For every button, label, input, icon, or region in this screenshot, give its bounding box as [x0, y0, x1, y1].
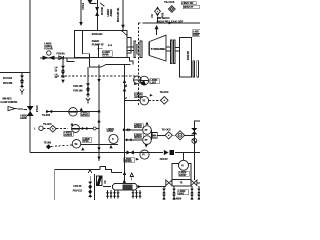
svg-text:FDS-105: FDS-105	[3, 82, 13, 85]
wire: steps to manifold	[100, 166, 112, 172]
signal: flag arrow to FCV-3	[8, 107, 15, 111]
thermowell: small diamond	[165, 132, 172, 139]
svg-text:FCV-3: FCV-3	[35, 106, 38, 113]
svg-text:BOILER: BOILER	[92, 32, 103, 36]
valve: FCV on riser x=97	[95, 7, 99, 16]
valve: FDV-57	[164, 150, 169, 155]
svg-text:GR BOX: GR BOX	[186, 51, 189, 61]
wire: drain x=58 with valves	[62, 58, 64, 78]
boundary: dashed vertical x=139	[138, 23, 140, 105]
wire: suction step into pump	[67, 58, 74, 62]
instrument: PI on recirc line	[140, 150, 149, 159]
svg-text:FCV-2: FCV-2	[82, 2, 85, 9]
wire: pump discharge stepped line	[89, 54, 130, 67]
svg-text:FDV-166: FDV-166	[73, 90, 83, 93]
valve: FCV-3 vertical bowtie	[27, 106, 34, 111]
svg-text:SPS03: SPS03	[124, 160, 132, 163]
svg-text:FCV-5B: FCV-5B	[44, 48, 53, 51]
wire: riser x=97 into pump	[96, 0, 98, 31]
wire: drain column x=92.5	[89, 176, 91, 198]
valve: FCV-5B actuator circle	[47, 51, 51, 55]
label: L4B20 LS07	[150, 79, 159, 84]
wire: drop x=99	[98, 65, 100, 162]
wire: leak-off into TE header	[193, 153, 195, 181]
svg-text:DPS7B: DPS7B	[64, 134, 72, 137]
valve: pump internal bleed	[97, 44, 99, 58]
boundary: dashed horizontal y=76	[57, 75, 139, 77]
svg-text:FDV-165: FDV-165	[73, 85, 83, 88]
wire: left recirc riser x=29	[29, 0, 31, 153]
wire: drain x=90 with FDV-165/166	[87, 67, 89, 98]
wire: leak-off header y=23	[139, 22, 145, 24]
thermowell: diamond with circle	[175, 131, 184, 140]
svg-text:MN: MN	[153, 135, 157, 138]
instrument: seal circles near turbine	[134, 76, 142, 84]
label: L4B20 TPS08 boxed	[134, 93, 142, 98]
svg-text:L4B2O DR: L4B2O DR	[182, 2, 194, 5]
valve: top inlet triangle	[88, 0, 93, 4]
svg-text:AP88: AP88	[103, 54, 110, 57]
coupling: pump/turbine	[134, 41, 136, 57]
svg-text:SPS07: SPS07	[135, 126, 143, 129]
svg-text:TE-305: TE-305	[44, 142, 52, 145]
svg-text:FLOW CONTRL: FLOW CONTRL	[1, 101, 19, 104]
instrument row 1: PI line y=111.5	[46, 111, 99, 113]
wire: drain stem x=94.3	[93, 174, 95, 200]
equipment: black box left of manifold	[103, 186, 111, 188]
svg-text:EPS07: EPS07	[179, 174, 187, 177]
branch: PT line 1 y=129.8	[125, 129, 143, 131]
svg-text:FDV-112: FDV-112	[73, 189, 83, 192]
header: TE manifold	[150, 186, 166, 188]
svg-text:PI: PI	[181, 164, 184, 167]
coupling: turbine/gear	[170, 40, 172, 64]
wire: main drop x=125.5	[124, 65, 126, 185]
svg-text:TE: TE	[142, 100, 145, 103]
valve: FCV-5B bowtie	[43, 56, 49, 60]
wire: FCV-5B line y=58.7	[40, 57, 89, 59]
svg-text:TS-OC3: TS-OC3	[43, 123, 52, 126]
node: test point on DP line	[93, 127, 96, 130]
wire: jog x=88	[91, 0, 97, 4]
strainer: Y at x=90	[86, 98, 90, 101]
branch: TE line y=100.6	[125, 100, 141, 102]
drain arrow at x=63	[61, 80, 64, 84]
svg-text:FDV-5A: FDV-5A	[57, 52, 66, 55]
vent: arrow above turbine	[155, 25, 159, 29]
coupling: gear right	[193, 61, 195, 77]
svg-text:FCV-104: FCV-104	[3, 77, 13, 80]
svg-text:L4B2: L4B2	[193, 30, 199, 33]
svg-text:TE: TE	[180, 181, 183, 184]
break: tick marks	[124, 85, 127, 86]
wire: manifold outlet	[137, 186, 150, 188]
svg-text:MN REC: MN REC	[3, 98, 12, 101]
wire: small diagonal	[100, 3, 105, 6]
wire: PI loop to TE header	[172, 164, 179, 180]
shaft: pump to coupling	[127, 46, 134, 48]
svg-text:FDV-70: FDV-70	[74, 185, 83, 188]
valves: manifold drains right group	[131, 190, 141, 198]
arrow: into manifold	[123, 179, 126, 183]
wire: test line y=135.3	[157, 134, 165, 136]
pump: boiler feed pump casing	[74, 31, 127, 58]
valves: TE header drains	[162, 186, 201, 200]
instrument: PT circle 2	[143, 136, 152, 145]
manifold: gauge board capsule	[112, 183, 137, 190]
svg-text:SPS07: SPS07	[135, 136, 143, 139]
wire: BFP lube oil riser x=123	[122, 0, 124, 31]
wire: PT pair tie	[150, 130, 152, 140]
svg-text:TPS1: TPS1	[83, 140, 89, 143]
svg-text:FDV-57: FDV-57	[160, 158, 169, 161]
valve: FDV-5A check	[59, 56, 64, 60]
label: L4B20 BP07	[178, 190, 189, 195]
svg-text:C7DR: C7DR	[107, 130, 114, 133]
wire: dashed to thermowell	[149, 100, 161, 102]
svg-text:BP07: BP07	[178, 193, 185, 196]
svg-text:TE-OC3: TE-OC3	[160, 91, 169, 94]
wire: riser x=81 with down arrow	[80, 0, 82, 23]
wire: main recirc run y=152.5	[30, 152, 163, 154]
svg-text:A420F: A420F	[20, 117, 28, 120]
instrument: PI bottom right	[179, 160, 189, 170]
valve: relief on leak-off riser	[156, 6, 159, 9]
svg-text:A40EO: A40EO	[110, 9, 113, 17]
instrument: TE circle	[140, 96, 149, 105]
wire: leak-off drop from right edge	[194, 121, 200, 153]
label: gearbox top labels	[193, 30, 200, 33]
gearbox	[179, 37, 191, 77]
svg-text:LS07: LS07	[150, 81, 156, 84]
svg-text:TS-3O3: TS-3O3	[42, 114, 51, 117]
wire: drain x=22 below y=72.5	[21, 73, 23, 89]
svg-text:DPS7: DPS7	[193, 34, 200, 37]
svg-text:FCV-5C: FCV-5C	[101, 6, 104, 15]
wire: stub to left edge y=72.5	[0, 72, 30, 74]
instrument: speed circle	[109, 134, 118, 143]
svg-text:TURBINE: TURBINE	[151, 47, 166, 51]
label: MN box	[152, 133, 157, 138]
label: top right boxed labels	[181, 2, 196, 5]
strainer: Y at x=22	[20, 90, 24, 93]
valves: manifold drains left group	[106, 190, 120, 198]
valve: slide gate flag	[96, 176, 102, 186]
vent: open arrow	[88, 169, 91, 173]
label: LA320 AP88	[102, 51, 112, 56]
shaft: turbine right	[166, 46, 170, 48]
wire: recirc run right of FDV-57	[175, 152, 200, 154]
svg-text:TO-OC5: TO-OC5	[162, 128, 171, 131]
arrow: flow up on drop x=99	[97, 119, 100, 123]
vent: hollow arrow at manifold	[130, 173, 134, 177]
svg-text:DPS7 PT: DPS7 PT	[184, 6, 194, 9]
svg-text:PI: PI	[142, 154, 145, 157]
svg-text:FC: FC	[104, 180, 107, 183]
turbine: drive turbine	[150, 35, 167, 61]
valve: on leak-off drop	[191, 128, 197, 131]
svg-text:DPS7A: DPS7A	[81, 114, 89, 117]
enclosure: bottom-left box	[55, 170, 100, 201]
svg-text:BFP LUB OIL: BFP LUB OIL	[117, 7, 120, 22]
instrument: PT circle 1	[143, 126, 152, 135]
svg-text:FO: FO	[151, 14, 154, 17]
thermowell: TE-OC3 diamond	[161, 97, 169, 105]
svg-text:TE: TE	[74, 143, 77, 146]
valve: black valve on recirc at x=129	[127, 150, 131, 154]
arrow: flow down on drop x=99	[97, 147, 100, 151]
svg-text:L4B20: L4B20	[174, 197, 182, 200]
branch: PT line 2 y=139.8	[125, 139, 143, 141]
svg-text:TE-OC5: TE-OC5	[164, 0, 175, 4]
thermowell: TE-OC5 diamond	[168, 6, 175, 13]
